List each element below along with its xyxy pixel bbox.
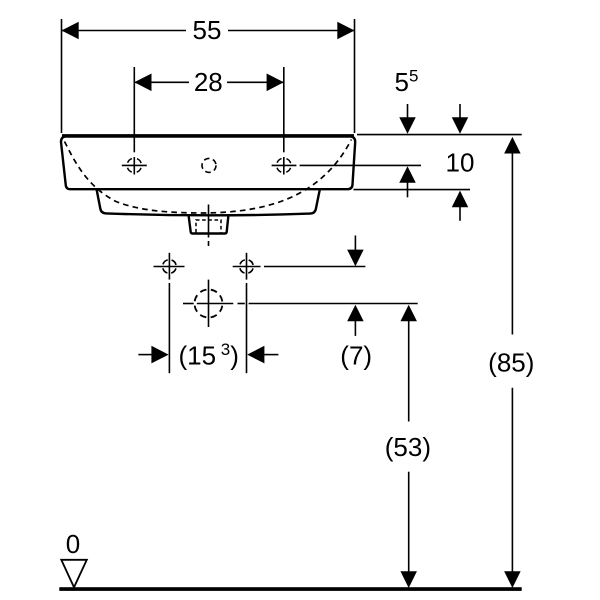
svg-text:55: 55 — [193, 15, 222, 45]
svg-text:28: 28 — [194, 67, 223, 97]
dimension 10 arrow up at shelf level — [459, 207, 461, 221]
drain outlet level reference line — [183, 303, 194, 305]
dimension (85) arrow up at rim level — [504, 137, 521, 154]
faucet hole right crosshair — [272, 164, 297, 166]
drain hidden pipe (dashed) — [196, 220, 221, 233]
svg-text:10: 10 — [446, 148, 475, 178]
faucet hole left dashed circle — [127, 158, 141, 172]
dimension 55 extension line left — [61, 19, 63, 133]
faucet hole right dashed circle — [277, 158, 291, 172]
svg-text:(15 3): (15 3) — [179, 340, 239, 371]
svg-text:(7): (7) — [340, 341, 372, 371]
tap level reference line — [300, 164, 421, 166]
datum triangle — [61, 560, 87, 588]
faucet hole left crosshair — [122, 164, 147, 166]
dimension (85) line lower — [511, 388, 513, 572]
dimension (15 3) extension line left — [168, 283, 170, 373]
dimension (53) arrow up at drain level — [400, 305, 417, 322]
inner bowl hidden edge (dashed curve) — [65, 140, 352, 214]
dimension (15 3) arrow right — [264, 354, 279, 356]
fixing hole right crosshair — [233, 266, 261, 268]
dimension (53) line upper — [408, 321, 410, 422]
dimension 28 arrow left — [134, 74, 151, 92]
dimension (85) arrow down at floor — [504, 571, 521, 588]
faucet hole middle dashed circle — [202, 158, 216, 172]
dimension 28 arrow right — [267, 74, 284, 92]
dimension 55 extension line right — [354, 19, 356, 133]
dimension (7) arrow up at drain level — [354, 321, 356, 336]
dimension 55 arrow right — [337, 22, 354, 40]
washbasin upper body outline — [61, 136, 355, 189]
svg-text:(53): (53) — [385, 432, 431, 462]
drain centerline — [208, 205, 210, 238]
washbasin rim top edge (thick) — [62, 134, 354, 138]
fixing hole level reference line — [264, 266, 365, 268]
dimension 55 line — [62, 30, 187, 32]
svg-text:0: 0 — [66, 529, 80, 559]
fixing hole left dashed circle — [163, 260, 177, 274]
dimension (15 3) extension line right — [246, 283, 248, 373]
shelf level reference line — [354, 189, 471, 191]
dimension 28 line — [134, 81, 189, 83]
fixing hole right dashed circle — [240, 260, 254, 274]
dimension (85) line upper — [511, 153, 513, 335]
dimension 5^5 arrow up at tap level — [407, 182, 409, 197]
dimension (53) arrow down at floor — [400, 571, 417, 588]
fixing hole left crosshair — [154, 266, 185, 268]
floor line — [59, 587, 521, 591]
svg-text:(85): (85) — [488, 348, 534, 378]
dimension 5^5 arrow down at x=407.5 — [407, 104, 409, 118]
rim top level reference line — [357, 134, 522, 136]
dimension 28 extension/centerline right — [283, 67, 285, 152]
drain outlet dashed circle — [195, 290, 223, 318]
drain box — [189, 216, 229, 234]
dimension 28 extension/centerline left — [133, 67, 135, 152]
dimension (15 3) arrow left — [138, 354, 152, 356]
dimension 55 arrow left — [62, 22, 79, 40]
dimension 10 arrow down at x=460 — [459, 104, 461, 118]
dimension (53) line lower — [408, 472, 410, 572]
drain outlet vertical centerline — [208, 280, 210, 327]
washbasin lower tier — [97, 190, 320, 216]
dimension (7) arrow down at fixing hole level — [354, 236, 356, 251]
